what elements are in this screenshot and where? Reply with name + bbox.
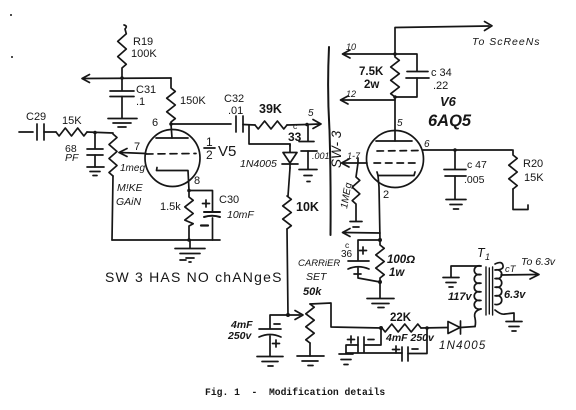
arrow terminal 10: [343, 50, 396, 58]
svg-text:C31: C31: [136, 84, 156, 96]
node pin8: [187, 189, 191, 193]
tube V6 envelope: [367, 131, 424, 188]
1MEG end tick: [350, 222, 362, 228]
arrow to terminal 5: [307, 120, 321, 129]
svg-text:15K: 15K: [524, 172, 544, 184]
svg-text:2: 2: [383, 189, 389, 201]
primary bottom lead to diode: [475, 309, 481, 327]
V5 grid (dashed): [146, 153, 196, 156]
potentiometer 1meg MIKE GAIN: [109, 134, 117, 176]
svg-text:1MEg: 1MEg: [339, 181, 354, 209]
resistor 39K: [255, 121, 287, 129]
node R19/C31: [120, 76, 124, 80]
svg-text:50k: 50k: [303, 286, 322, 298]
svg-text:C30: C30: [219, 194, 239, 206]
ground: [108, 119, 137, 128]
svg-text:SET: SET: [306, 271, 328, 283]
svg-text:7: 7: [134, 141, 140, 153]
wire pin6 to C32: [171, 123, 231, 125]
node junction: [286, 313, 290, 317]
capacitor C29: [37, 124, 56, 140]
svg-text:150K: 150K: [180, 95, 206, 107]
arrow terminal 1: [343, 229, 381, 237]
node pin6: [169, 122, 173, 126]
svg-text:SW 3 HAS NO chANgeS: SW 3 HAS NO chANgeS: [105, 269, 283, 285]
svg-text:5: 5: [397, 118, 403, 129]
svg-text:V6: V6: [440, 94, 457, 109]
node 7.5K top: [393, 52, 397, 56]
V6 grid 1 (dashed): [377, 150, 419, 153]
B+ rail with left arrow: [82, 75, 171, 83]
wire 10K down to carrier pot: [287, 229, 288, 315]
minus sign: [412, 348, 418, 350]
arrow into 50K pot wiper: [288, 311, 303, 320]
potentiometer CARRIER SET 50K: [306, 304, 314, 343]
resistor 15K: [56, 128, 87, 136]
node 5 junction: [305, 123, 309, 127]
svg-text:15K: 15K: [62, 115, 82, 127]
svg-text:1.5k: 1.5k: [160, 201, 181, 213]
resistor 1.5K: [185, 191, 193, 241]
diode 1N4005: [282, 144, 298, 168]
resistor 150K: [167, 78, 176, 122]
svg-text:CARRiER: CARRiER: [298, 258, 340, 269]
svg-text:.01: .01: [228, 105, 243, 117]
svg-text:cT: cT: [505, 264, 517, 275]
ground: [299, 170, 317, 182]
primary top lead to ground: [451, 266, 481, 277]
resistor 7.5K 2W: [391, 54, 400, 97]
V5 plate: [156, 124, 188, 138]
C30 plus sign: [203, 200, 210, 207]
pot bottom ground: [297, 343, 324, 366]
capacitor C30 wire: [190, 191, 213, 212]
svg-text:.005: .005: [464, 174, 485, 186]
svg-text:6: 6: [152, 117, 158, 129]
transformer T1 primary: [474, 266, 481, 309]
ground: [339, 354, 353, 365]
svg-text:2: 2: [206, 148, 213, 162]
svg-text:R20: R20: [523, 158, 543, 170]
svg-text:100K: 100K: [131, 48, 157, 60]
capacitor C30: [204, 212, 220, 240]
ground: [443, 278, 459, 288]
wire plate lead V6: [394, 97, 396, 141]
V5 cathode: [157, 168, 190, 191]
capacitor C47: [444, 150, 466, 199]
wire pot bottom down: [112, 176, 113, 240]
tube V5 envelope: [145, 130, 200, 187]
transformer T1 core: [486, 267, 493, 315]
node cathode network top: [378, 238, 382, 242]
svg-text:1-7: 1-7: [347, 151, 361, 161]
svg-text:10K: 10K: [296, 200, 319, 214]
node rail: [187, 238, 191, 242]
C30 minus sign: [201, 224, 208, 226]
C36 minus sign: [354, 273, 361, 275]
arrow terminal 12: [341, 96, 396, 104]
svg-text:117v: 117v: [448, 291, 473, 303]
resistor 22K: [382, 324, 421, 332]
wire 39K to node: [287, 124, 307, 127]
transformer T1 secondary: [495, 263, 503, 305]
diode 1N4005 (rectifier): [448, 321, 475, 334]
svg-text:1N4005: 1N4005: [240, 158, 277, 170]
svg-text:12: 12: [346, 89, 356, 99]
svg-text:.001: .001: [312, 151, 330, 161]
wire 22K to diode: [421, 327, 448, 330]
ground: [367, 282, 394, 308]
svg-text:100Ω: 100Ω: [387, 254, 415, 266]
svg-text:GAiN: GAiN: [116, 196, 142, 208]
arrow terminal 1-7: [342, 158, 368, 167]
ground rail: [346, 352, 402, 354]
wire grid1 to output node: [423, 149, 512, 151]
node B to 22K: [379, 326, 383, 330]
svg-text:c 34: c 34: [431, 67, 452, 79]
capacitor C34: [395, 54, 429, 97]
ground: [257, 357, 283, 367]
resistor 1MEG: [352, 163, 360, 221]
svg-text:22K: 22K: [390, 312, 412, 324]
svg-text:6AQ5: 6AQ5: [428, 112, 472, 130]
svg-text:M!KE: M!KE: [117, 182, 144, 194]
cathode bottom rail: [112, 239, 220, 241]
secondary CT lead with arrow To 6.3v: [501, 270, 539, 279]
svg-text:To ScReeNs: To ScReeNs: [472, 36, 541, 48]
V6 cathode: [377, 172, 415, 176]
svg-text:8: 8: [194, 175, 200, 187]
svg-text:39K: 39K: [259, 102, 282, 116]
wire 15K to pot: [87, 132, 113, 133]
resistor R20: [509, 150, 517, 189]
capacitor 68pF: [87, 133, 103, 167]
capacitor 4mF B (right): [402, 328, 427, 361]
switch wafer SW-3 line: [328, 47, 331, 235]
wiper arrow to pin 7: [119, 149, 146, 157]
svg-text:To 6.3v: To 6.3v: [521, 256, 556, 268]
svg-text:2w: 2w: [364, 79, 379, 91]
svg-text:7.5K: 7.5K: [359, 66, 384, 78]
svg-text:C32: C32: [224, 93, 244, 105]
4mF minus sign: [274, 323, 280, 325]
ground: [87, 167, 104, 176]
V6 plate: [376, 140, 412, 142]
wire C32 tap down to diode: [249, 125, 290, 146]
svg-text:10: 10: [346, 42, 356, 52]
V6 grid 2 (dashed): [374, 162, 418, 164]
wire diode to 10K: [288, 168, 290, 196]
svg-text:Fig. 1 - Modification detail: Fig. 1 - Modification details: [205, 387, 385, 398]
svg-text:.1: .1: [136, 96, 145, 108]
ground: [446, 200, 466, 210]
R20 bottom hook: [513, 189, 528, 210]
svg-text:1meg: 1meg: [120, 163, 145, 174]
minus sign: [368, 339, 374, 341]
node cathode network bottom: [378, 280, 382, 284]
label 1/2 V5: [204, 135, 236, 162]
node 7.5K bottom: [393, 95, 397, 99]
svg-text:6.3v: 6.3v: [504, 289, 526, 301]
svg-text:.22: .22: [433, 80, 448, 92]
svg-text:PF: PF: [65, 152, 79, 164]
svg-text:C29: C29: [26, 111, 46, 123]
svg-text:10mF: 10mF: [227, 209, 254, 221]
resistor 100 ohm 1W: [376, 240, 384, 282]
svg-text:V5: V5: [218, 143, 236, 160]
node junction: [93, 131, 97, 135]
capacitor C31: [110, 78, 134, 118]
svg-text:250v: 250v: [227, 330, 253, 342]
capacitor 4mF 250V (bias filter): [259, 315, 288, 356]
svg-text:1w: 1w: [389, 267, 405, 279]
secondary bottom lead: [495, 310, 514, 321]
svg-text:6: 6: [424, 139, 430, 150]
svg-text:1: 1: [485, 252, 490, 262]
capacitor 4mF A (left): [346, 328, 381, 353]
plus sign: [348, 336, 355, 343]
To Screens feed wire: [395, 26, 489, 54]
4mF plus sign: [273, 340, 280, 347]
resistor 10K: [283, 196, 292, 229]
capacitor C33 .001: [299, 125, 317, 170]
svg-text:4mF 250v: 4mF 250v: [385, 332, 435, 344]
svg-text:R19: R19: [133, 36, 153, 48]
node diode junction: [425, 326, 429, 330]
capacitor C36 wires: [358, 240, 380, 260]
capacitor C36: [348, 261, 380, 282]
node output (C47 junction): [453, 148, 457, 152]
capacitor C32: [236, 116, 255, 132]
arrowhead To Screens: [485, 22, 493, 31]
input wire: [19, 131, 33, 133]
svg-text:c 47: c 47: [467, 159, 487, 171]
V6 cathode lead: [378, 176, 380, 241]
svg-text:5: 5: [308, 108, 314, 119]
resistor R19: [118, 25, 127, 78]
C36 plus sign: [360, 247, 367, 254]
svg-text:1N4005: 1N4005: [439, 340, 486, 352]
plus sign: [393, 346, 400, 353]
svg-text:1: 1: [206, 135, 213, 149]
ground: [175, 240, 205, 262]
pot top wire to 22K rail: [310, 303, 382, 328]
ground: [506, 322, 522, 332]
svg-text:36: 36: [341, 249, 353, 260]
speck top-left: [10, 14, 12, 16]
